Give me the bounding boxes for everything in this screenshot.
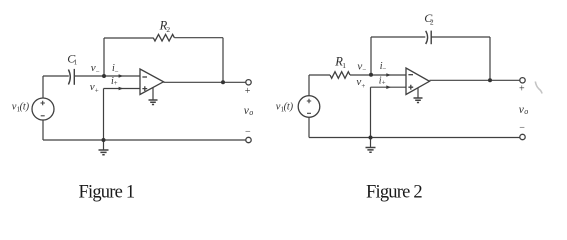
svg-text:−: − [382,65,386,73]
svg-text:2: 2 [166,25,170,34]
svg-text:−: − [245,127,251,138]
svg-text:+: + [245,86,251,97]
svg-text:(t): (t) [284,101,294,112]
svg-text:+: + [361,82,365,90]
svg-text:−: − [96,67,100,75]
svg-text:1: 1 [342,61,346,70]
svg-text:o: o [524,107,528,116]
svg-text:(t): (t) [20,102,30,113]
svg-text:Figure 2: Figure 2 [366,182,422,202]
svg-text:−: − [362,66,366,74]
svg-text:+: + [95,86,99,94]
svg-text:Figure 1: Figure 1 [79,182,135,202]
svg-text:+: + [114,79,118,87]
svg-text:−: − [115,67,119,75]
svg-text:2: 2 [430,18,434,27]
svg-text:1: 1 [74,58,78,66]
svg-text:o: o [249,108,253,117]
svg-text:+: + [519,84,525,95]
svg-text:+: + [382,79,386,87]
svg-text:−: − [519,122,525,133]
